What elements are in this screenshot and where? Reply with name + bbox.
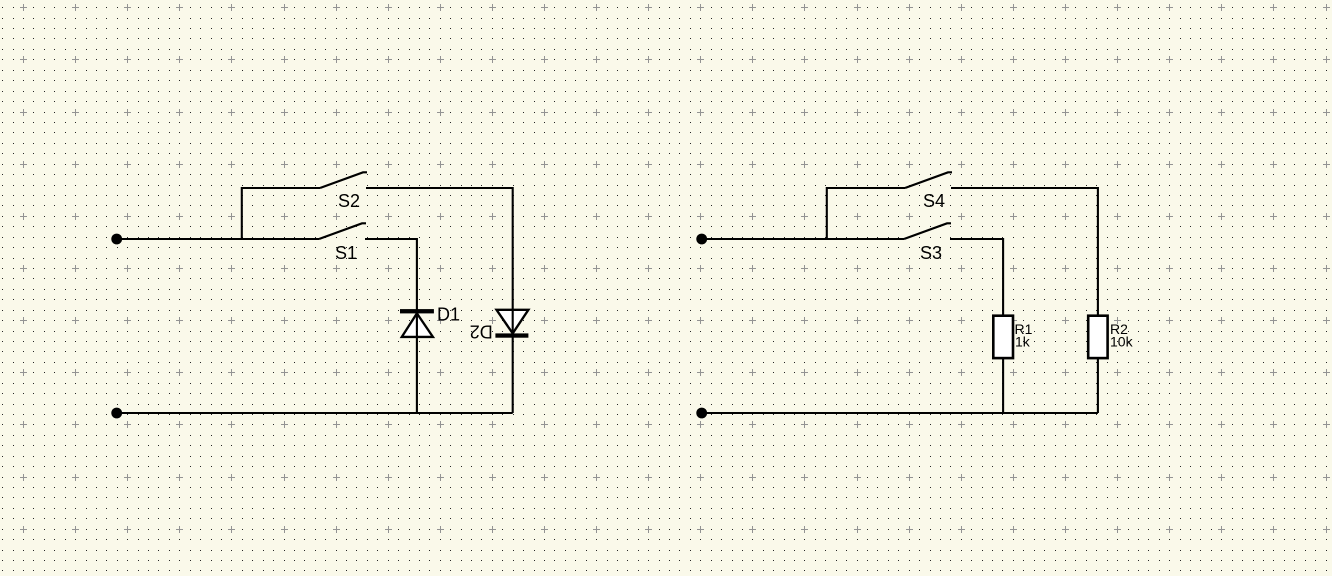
wire: S2 right contact to D2 top xyxy=(366,188,513,413)
switch S2 xyxy=(320,172,367,211)
svg-text:1k: 1k xyxy=(1015,334,1031,350)
svg-text:S2: S2 xyxy=(338,191,360,211)
wire: top input to S1 pivot xyxy=(117,238,319,240)
wire: R2 bottom lead xyxy=(1097,358,1099,413)
resistor R2 xyxy=(1088,316,1133,358)
svg-text:S3: S3 xyxy=(920,243,942,263)
svg-text:S4: S4 xyxy=(923,191,945,211)
svg-text:D1: D1 xyxy=(437,305,460,325)
node: right bottom terminal xyxy=(696,408,707,419)
wire: bottom return right xyxy=(702,412,1098,414)
switch S1 xyxy=(319,223,366,263)
wire: top input to S3 pivot xyxy=(702,238,904,240)
switch S4 xyxy=(905,172,952,211)
resistor R1 xyxy=(993,316,1032,358)
wire: branch up to S4 xyxy=(827,188,905,239)
wire: R1 bottom lead xyxy=(1002,358,1004,413)
wire: bottom return xyxy=(117,412,513,414)
wire: S3 right contact to R1 top xyxy=(950,239,1003,316)
diode D2 xyxy=(470,310,529,342)
svg-text:S1: S1 xyxy=(335,243,357,263)
svg-text:10k: 10k xyxy=(1110,334,1134,350)
node: left bottom terminal xyxy=(111,408,122,419)
wire: branch up to S2 xyxy=(242,188,320,239)
node: left top terminal xyxy=(111,234,122,245)
svg-text:D2: D2 xyxy=(470,322,493,342)
node: right top terminal xyxy=(696,234,707,245)
wire: S1 right contact to D1 top xyxy=(365,239,417,413)
diode D1 xyxy=(400,305,460,337)
wire: S4 right contact to R2 top xyxy=(951,188,1098,316)
switch S3 xyxy=(904,223,951,263)
